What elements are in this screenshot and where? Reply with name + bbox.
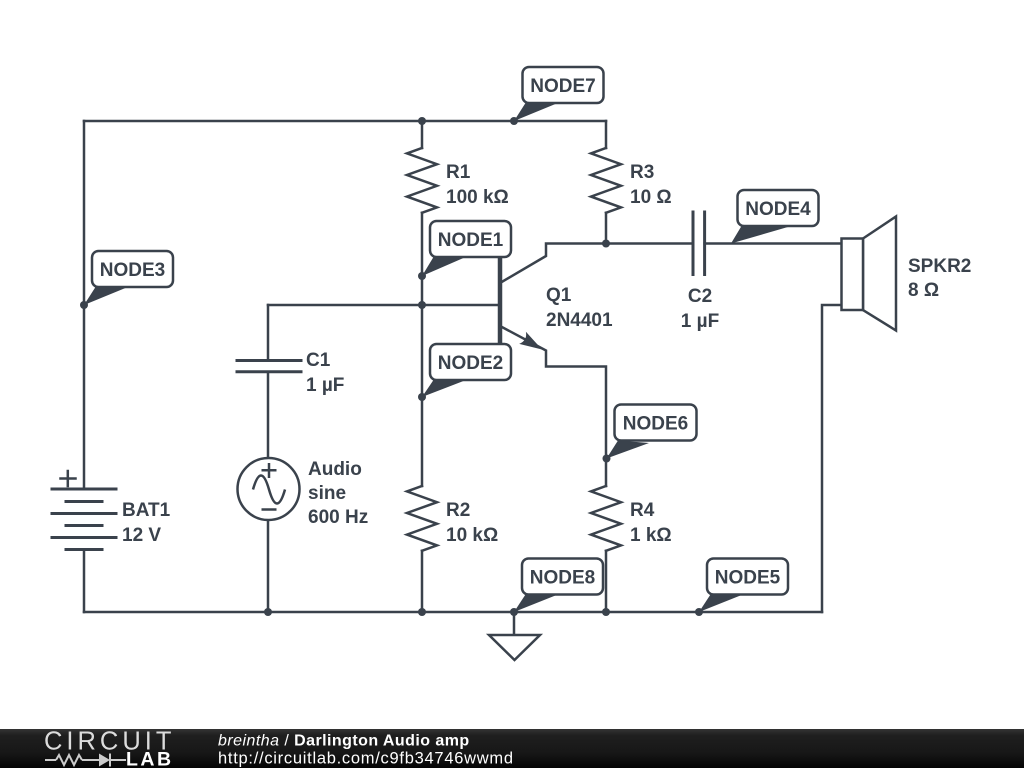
resistor R1 label [446,162,509,208]
svg-text:R1: R1 [446,162,471,183]
svg-text:C2: C2 [688,286,712,307]
resistor R4 label [630,500,672,546]
svg-text:100 kΩ: 100 kΩ [446,187,509,208]
svg-text:1 µF: 1 µF [681,311,719,332]
svg-text:NODE7: NODE7 [530,76,595,97]
svg-text:NODE2: NODE2 [438,353,503,374]
svg-text:Q1: Q1 [546,285,572,306]
node NODE6 [603,405,697,463]
node NODE5 [695,559,788,617]
svg-text:12 V: 12 V [122,525,161,546]
speaker label SPKR2 8 ohm [908,256,971,301]
svg-text:1 kΩ: 1 kΩ [630,525,672,546]
svg-text:NODE3: NODE3 [100,260,165,281]
transistor Q1 base bar [498,257,503,345]
wire C2 to speaker [705,242,842,245]
wire right rail speaker return [822,305,842,612]
junction bottom R2 [418,608,426,616]
wire base from C1 branch [268,304,497,307]
svg-text:NODE6: NODE6 [623,414,688,435]
wire R3 bottom lead [605,213,608,244]
svg-text:10 kΩ: 10 kΩ [446,525,498,546]
resistor R2 label [446,500,498,546]
wire source to bottom rail [267,520,270,612]
svg-text:breintha / Darlington Audio am: breintha / Darlington Audio amp [218,733,470,750]
svg-text:R4: R4 [630,500,655,521]
svg-text:SPKR2: SPKR2 [908,256,971,277]
node NODE8 [510,559,603,617]
svg-text:10 Ω: 10 Ω [630,187,672,208]
junction bottom source [264,608,272,616]
junction collector R3 [602,240,610,248]
wire ground stub [513,612,516,635]
footer logo wire with resistor and diode [45,754,126,767]
resistor R1 [407,148,437,213]
node NODE7 [510,67,604,125]
wire R3 top lead [605,121,608,148]
resistor R2 [407,486,437,551]
resistor R3 label [630,162,672,208]
svg-text:R3: R3 [630,162,654,183]
wire collector path [500,244,693,284]
battery BAT1 [52,489,116,550]
capacitor C2 [693,212,705,275]
wire battery to bottom rail [83,550,86,612]
resistor R3 [591,148,621,213]
svg-text:sine: sine [308,483,346,504]
svg-text:BAT1: BAT1 [122,500,171,521]
ground [489,635,540,660]
wire left rail [83,121,86,489]
wire C1 to source [267,373,270,459]
svg-text:8 Ω: 8 Ω [908,280,939,301]
node NODE2 [418,344,511,401]
svg-text:NODE4: NODE4 [745,199,811,220]
source V1 audio sine [238,458,300,520]
capacitor C1 [237,361,301,372]
node NODE3 [80,251,173,309]
svg-text:C1: C1 [306,350,331,371]
source label Audio sine 600 Hz [308,459,368,528]
svg-text:NODE5: NODE5 [715,568,781,589]
wire top rail [84,120,606,123]
junction top R1 [418,117,426,125]
wire R1 top lead [421,121,424,148]
resistor R4 [591,486,621,551]
wire emitter path [500,326,606,486]
svg-text:LAB: LAB [126,749,174,768]
speaker SPKR2 [842,217,897,331]
svg-text:600 Hz: 600 Hz [308,507,368,528]
transistor Q1 emitter arrow [519,332,542,350]
svg-text:Audio: Audio [308,459,362,480]
svg-text:NODE1: NODE1 [438,230,504,251]
battery plus sign [61,471,76,486]
wire R1 to R2 vertical [421,213,424,486]
svg-text:NODE8: NODE8 [530,568,595,589]
svg-text:1 µF: 1 µF [306,375,344,396]
transistor Q1 label [546,285,613,331]
svg-text:http://circuitlab.com/c9fb3474: http://circuitlab.com/c9fb34746wwmd [218,750,514,768]
node NODE1 [418,221,511,280]
wire R4 bottom lead [605,551,608,612]
wire R2 bottom lead [421,551,424,612]
capacitor C1 label [306,350,344,396]
node NODE4 [731,190,819,244]
junction base cross [418,301,426,309]
svg-text:2N4401: 2N4401 [546,310,613,331]
capacitor C2 label [681,286,719,332]
svg-text:R2: R2 [446,500,470,521]
battery label BAT1 12 V [122,500,171,546]
wire C1 top lead [267,305,270,359]
junction bottom R4 [602,608,610,616]
wire bottom rail [84,611,822,614]
footer bar [0,729,1024,768]
